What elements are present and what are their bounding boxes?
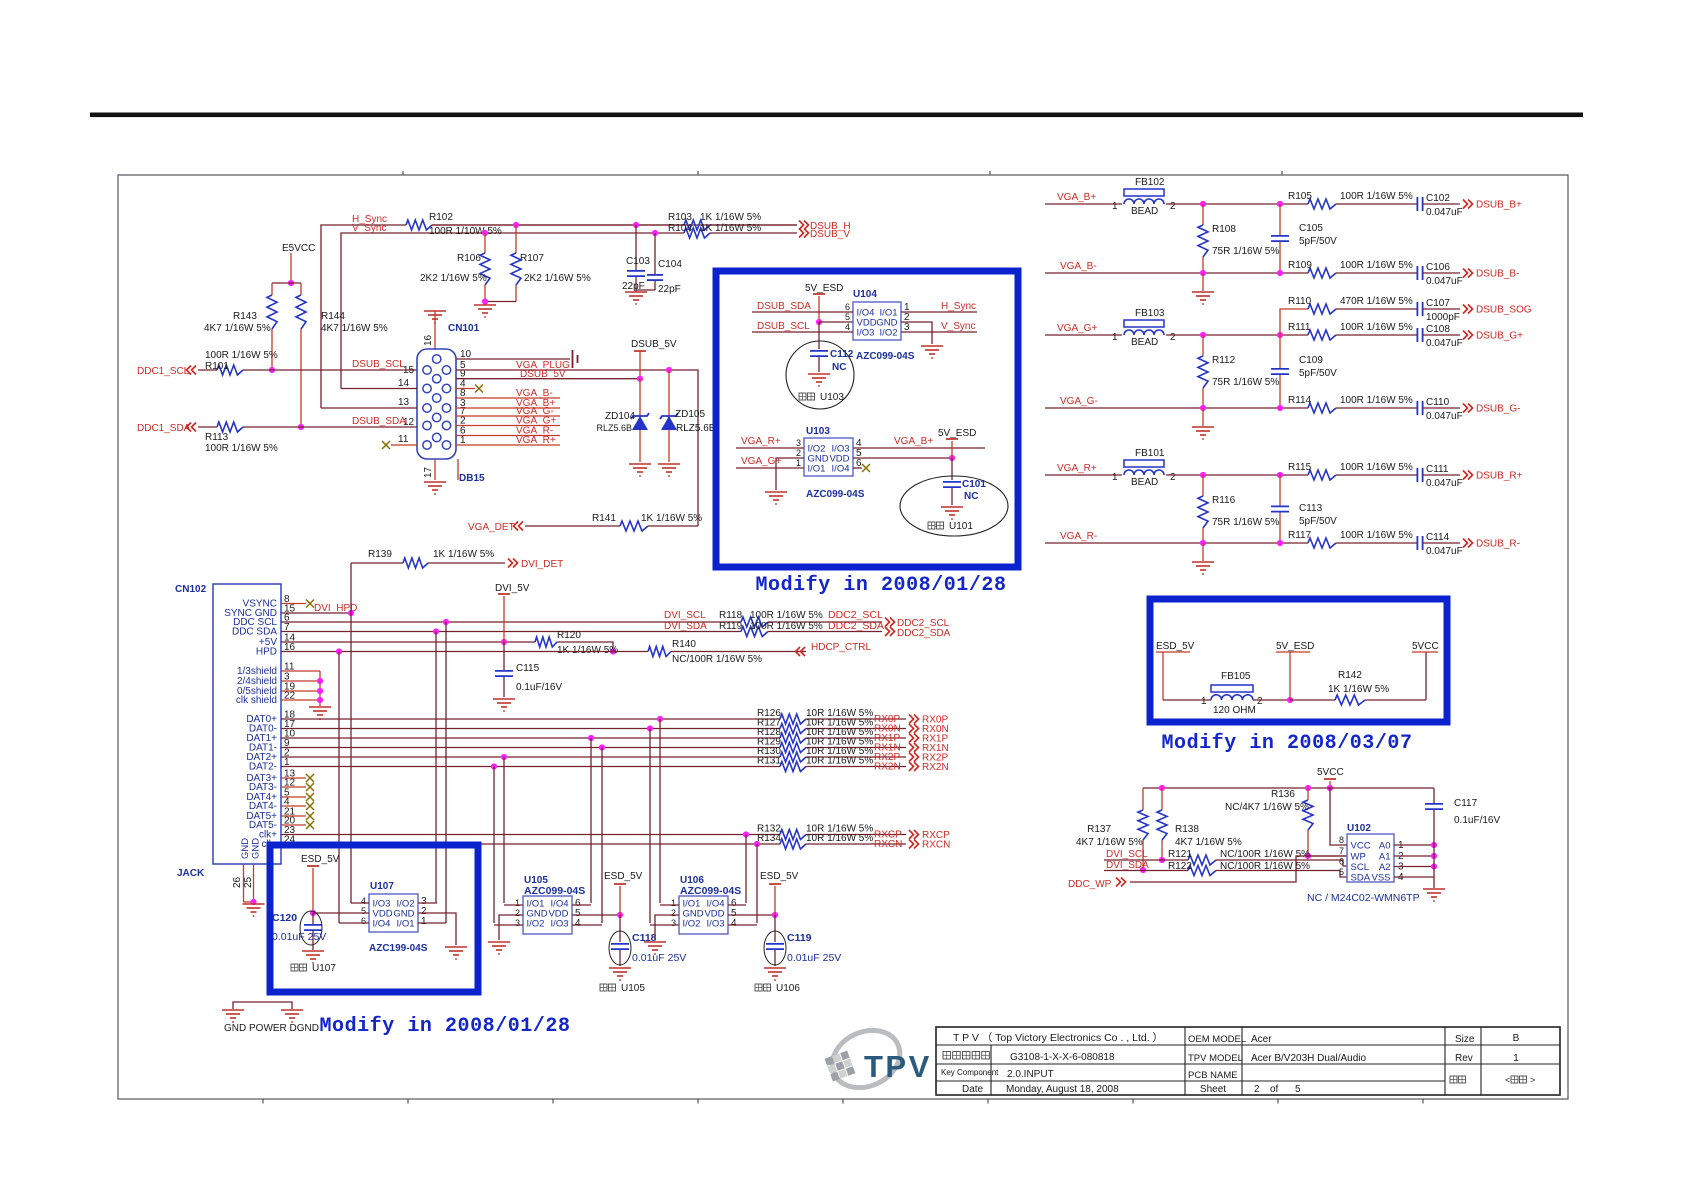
- svg-text:U101: U101: [949, 521, 973, 532]
- svg-text:100R 1/16W 5%: 100R 1/16W 5%: [750, 610, 823, 621]
- svg-text:VGA_G+: VGA_G+: [1057, 323, 1097, 334]
- svg-text:Sheet: Sheet: [1200, 1084, 1226, 1095]
- svg-text:1: 1: [421, 916, 427, 927]
- svg-text:1: 1: [1112, 332, 1118, 343]
- svg-text:DDC SDA: DDC SDA: [232, 627, 277, 638]
- svg-text:DDC2_SDA: DDC2_SDA: [828, 620, 884, 632]
- svg-text:4K7 1/16W 5%: 4K7 1/16W 5%: [204, 323, 271, 334]
- svg-text:1: 1: [1201, 696, 1207, 707]
- svg-text:>: >: [1530, 1075, 1535, 1085]
- svg-text:DVI_SCL: DVI_SCL: [664, 610, 706, 621]
- svg-text:C113: C113: [1299, 503, 1323, 514]
- svg-text:DVI_DET: DVI_DET: [521, 559, 563, 570]
- svg-text:5V_ESD: 5V_ESD: [938, 428, 976, 439]
- svg-text:Acer: Acer: [1251, 1034, 1272, 1045]
- svg-text:4: 4: [845, 322, 850, 332]
- svg-text:R137: R137: [1087, 824, 1111, 835]
- svg-text:1: 1: [1513, 1053, 1519, 1064]
- svg-text:NC/4K7 1/16W 5%: NC/4K7 1/16W 5%: [1225, 802, 1309, 813]
- svg-text:I/O2: I/O2: [527, 918, 545, 929]
- svg-text:R140: R140: [672, 639, 696, 650]
- svg-text:I/O4: I/O4: [373, 918, 391, 929]
- svg-text:1: 1: [1112, 472, 1118, 483]
- svg-text:DSUB_G-: DSUB_G-: [1476, 404, 1520, 415]
- svg-text:WP: WP: [1351, 851, 1366, 862]
- svg-text:75R 1/16W 5%: 75R 1/16W 5%: [1212, 517, 1279, 528]
- svg-text:NC: NC: [832, 362, 846, 373]
- svg-text:8: 8: [1339, 835, 1344, 845]
- svg-text:C105: C105: [1299, 223, 1323, 234]
- svg-text:R139: R139: [368, 549, 392, 560]
- svg-text:5V_ESD: 5V_ESD: [805, 283, 843, 294]
- svg-text:TPV MODEL: TPV MODEL: [1188, 1053, 1243, 1064]
- svg-text:R109: R109: [1288, 260, 1312, 271]
- svg-text:100R 1/16W 5%: 100R 1/16W 5%: [1340, 462, 1413, 473]
- svg-text:HPD: HPD: [256, 647, 277, 658]
- svg-text:6: 6: [1339, 857, 1344, 867]
- svg-text:100R 1/16W 5%: 100R 1/16W 5%: [205, 443, 278, 454]
- svg-text:VGA_B+: VGA_B+: [894, 436, 933, 447]
- svg-text:R121: R121: [1168, 849, 1192, 860]
- svg-text:AZC099-04S: AZC099-04S: [524, 885, 585, 897]
- svg-text:AZC099-04S: AZC099-04S: [680, 885, 741, 897]
- svg-text:ESD_5V: ESD_5V: [604, 871, 643, 882]
- svg-text:0.047uF: 0.047uF: [1426, 478, 1463, 489]
- svg-text:DSUB_SCL: DSUB_SCL: [757, 321, 810, 332]
- svg-text:I/O4: I/O4: [832, 463, 850, 474]
- svg-text:VGA_G-: VGA_G-: [1060, 396, 1098, 407]
- svg-text:DVI_SCL: DVI_SCL: [1106, 849, 1148, 860]
- svg-text:VGA_B+: VGA_B+: [1057, 192, 1096, 203]
- svg-text:T P V （ Top Victory Electron: T P V （ Top Victory Electronics Co . , L…: [953, 1032, 1163, 1044]
- svg-text:100R 1/10W 5%: 100R 1/10W 5%: [429, 226, 502, 237]
- svg-text:R115: R115: [1288, 462, 1312, 473]
- svg-text:2: 2: [796, 448, 801, 458]
- svg-text:Modify in 2008/01/28: Modify in 2008/01/28: [755, 574, 1006, 597]
- svg-text:VGA_R+: VGA_R+: [741, 436, 781, 447]
- svg-text:R105: R105: [1288, 191, 1312, 202]
- svg-text:75R 1/16W 5%: 75R 1/16W 5%: [1212, 246, 1279, 257]
- svg-text:R138: R138: [1175, 824, 1199, 835]
- svg-text:C108: C108: [1426, 324, 1450, 335]
- svg-text:4: 4: [731, 918, 737, 929]
- svg-text:VGA_R+: VGA_R+: [1057, 463, 1097, 474]
- svg-text:22pF: 22pF: [622, 281, 645, 292]
- svg-text:clk shield: clk shield: [236, 695, 277, 706]
- svg-text:C109: C109: [1299, 355, 1323, 366]
- svg-text:1K 1/16W 5%: 1K 1/16W 5%: [433, 549, 494, 560]
- svg-text:I/O2: I/O2: [880, 327, 898, 338]
- svg-text:GND POWER DGND: GND POWER DGND: [224, 1023, 319, 1034]
- svg-text:VCC: VCC: [1351, 840, 1371, 851]
- svg-text:<: <: [1505, 1075, 1510, 1085]
- svg-text:5V_ESD: 5V_ESD: [1276, 641, 1314, 652]
- svg-text:R114: R114: [1288, 395, 1312, 406]
- svg-text:CN101: CN101: [448, 323, 480, 334]
- svg-text:DSUB_5V: DSUB_5V: [631, 339, 677, 350]
- svg-text:C110: C110: [1426, 397, 1450, 408]
- svg-text:10R 1/16W 5%: 10R 1/16W 5%: [806, 833, 873, 844]
- svg-text:26: 26: [232, 876, 243, 888]
- svg-text:5: 5: [361, 906, 366, 916]
- svg-text:14: 14: [398, 378, 410, 389]
- svg-text:75R 1/16W 5%: 75R 1/16W 5%: [1212, 377, 1279, 388]
- svg-text:C115: C115: [516, 663, 540, 674]
- svg-text:A2: A2: [1379, 862, 1391, 873]
- svg-text:100R 1/16W 5%: 100R 1/16W 5%: [1340, 322, 1413, 333]
- svg-text:ESD_5V: ESD_5V: [760, 871, 799, 882]
- svg-text:16: 16: [423, 334, 434, 346]
- svg-text:2: 2: [1170, 332, 1176, 343]
- svg-text:Modify in 2008/01/28: Modify in 2008/01/28: [319, 1015, 570, 1038]
- svg-text:2: 2: [515, 908, 520, 918]
- svg-text:12: 12: [403, 417, 415, 428]
- svg-text:DVI_SDA: DVI_SDA: [664, 621, 707, 632]
- svg-text:1K 1/16W 5%: 1K 1/16W 5%: [700, 223, 761, 234]
- svg-text:VGA_DET: VGA_DET: [468, 522, 515, 533]
- svg-text:Size: Size: [1455, 1034, 1475, 1045]
- svg-text:SDA: SDA: [1351, 872, 1371, 883]
- svg-text:5VCC: 5VCC: [1317, 767, 1344, 778]
- svg-text:JACK: JACK: [177, 868, 205, 879]
- svg-text:RX2N: RX2N: [922, 762, 949, 773]
- svg-text:4K7 1/16W 5%: 4K7 1/16W 5%: [1076, 837, 1143, 848]
- svg-text:NC / M24C02-WMN6TP: NC / M24C02-WMN6TP: [1307, 892, 1420, 904]
- svg-text:DSUB_5V: DSUB_5V: [520, 369, 566, 380]
- svg-text:R107: R107: [520, 253, 544, 264]
- svg-text:R108: R108: [1212, 224, 1236, 235]
- svg-text:DAT2-: DAT2-: [249, 762, 277, 773]
- svg-text:SCL: SCL: [1351, 862, 1369, 873]
- svg-text:ZD104: ZD104: [605, 411, 635, 422]
- svg-text:4K7 1/16W 5%: 4K7 1/16W 5%: [1175, 837, 1242, 848]
- svg-text:4K7 1/16W 5%: 4K7 1/16W 5%: [321, 323, 388, 334]
- svg-text:15: 15: [403, 365, 415, 376]
- svg-text:R104: R104: [668, 223, 692, 234]
- svg-text:RXCN: RXCN: [922, 840, 950, 851]
- svg-text:1K 1/16W 5%: 1K 1/16W 5%: [641, 513, 702, 524]
- svg-text:FB101: FB101: [1135, 448, 1165, 459]
- svg-text:0.047uF: 0.047uF: [1426, 411, 1463, 422]
- svg-text:DB15: DB15: [459, 473, 485, 484]
- svg-text:DVI_SDA: DVI_SDA: [1106, 860, 1149, 871]
- svg-text:RLZ5.6B: RLZ5.6B: [676, 423, 716, 434]
- svg-text:1K 1/16W 5%: 1K 1/16W 5%: [700, 212, 761, 223]
- svg-text:R106: R106: [457, 253, 481, 264]
- svg-text:R120: R120: [557, 630, 581, 641]
- svg-text:2: 2: [1170, 472, 1176, 483]
- svg-text:I/O2: I/O2: [683, 918, 701, 929]
- svg-text:VGA_B-: VGA_B-: [1060, 261, 1097, 272]
- svg-text:25: 25: [243, 876, 254, 888]
- svg-text:DSUB_SCL: DSUB_SCL: [352, 359, 405, 370]
- svg-text:C106: C106: [1426, 262, 1450, 273]
- svg-text:DSUB_B+: DSUB_B+: [1476, 200, 1522, 211]
- svg-text:2: 2: [1170, 201, 1176, 212]
- svg-text:AZC199-04S: AZC199-04S: [369, 943, 428, 954]
- svg-text:of: of: [1270, 1084, 1279, 1095]
- svg-text:U102: U102: [1347, 823, 1371, 834]
- svg-text:6: 6: [845, 302, 850, 312]
- svg-text:DDC1_SCL: DDC1_SCL: [137, 366, 190, 377]
- svg-text:A0: A0: [1379, 840, 1391, 851]
- svg-text:1: 1: [671, 898, 676, 908]
- svg-text:Acer B/V203H Dual/Audio: Acer B/V203H Dual/Audio: [1251, 1053, 1367, 1064]
- svg-text:2.0.INPUT: 2.0.INPUT: [1007, 1069, 1054, 1080]
- svg-text:R101: R101: [205, 361, 229, 372]
- svg-text:1: 1: [515, 898, 520, 908]
- svg-text:R144: R144: [321, 311, 345, 322]
- svg-text:3: 3: [671, 918, 676, 928]
- svg-text:BEAD: BEAD: [1131, 337, 1158, 348]
- svg-text:U107: U107: [312, 963, 336, 974]
- svg-text:22pF: 22pF: [658, 284, 681, 295]
- svg-text:DSUB_SDA: DSUB_SDA: [352, 416, 406, 427]
- svg-text:E5VCC: E5VCC: [282, 243, 315, 254]
- svg-text:DSUB_SOG: DSUB_SOG: [1476, 305, 1532, 316]
- svg-text:R112: R112: [1212, 355, 1236, 366]
- svg-text:U103: U103: [806, 426, 830, 437]
- svg-text:5: 5: [845, 312, 850, 322]
- svg-text:U103: U103: [820, 392, 844, 403]
- svg-text:470R 1/16W 5%: 470R 1/16W 5%: [1340, 296, 1413, 307]
- svg-text:7: 7: [1339, 846, 1344, 856]
- svg-text:AZC099-04S: AZC099-04S: [806, 489, 865, 500]
- svg-text:Key Component: Key Component: [941, 1068, 999, 1077]
- svg-text:0.047uF: 0.047uF: [1426, 276, 1463, 287]
- svg-text:C112: C112: [830, 349, 854, 360]
- svg-text:DDC2_SDA: DDC2_SDA: [897, 628, 951, 639]
- svg-text:R131: R131: [757, 756, 781, 767]
- svg-text:100R 1/16W 5%: 100R 1/16W 5%: [1340, 260, 1413, 271]
- svg-text:RX2N: RX2N: [874, 762, 901, 773]
- svg-text:RXCN: RXCN: [874, 839, 902, 850]
- svg-text:DSUB_G+: DSUB_G+: [1476, 331, 1523, 342]
- svg-text:120 OHM: 120 OHM: [1213, 705, 1256, 716]
- svg-text:0.1uF/16V: 0.1uF/16V: [516, 682, 562, 693]
- svg-text:U105: U105: [621, 983, 645, 994]
- svg-text:2K2 1/16W 5%: 2K2 1/16W 5%: [524, 273, 591, 284]
- svg-text:DSUB_SDA: DSUB_SDA: [757, 301, 811, 312]
- svg-text:VGA_R-: VGA_R-: [1060, 531, 1097, 542]
- svg-text:NC: NC: [964, 491, 978, 502]
- svg-text:V_Sync: V_Sync: [941, 321, 975, 332]
- svg-text:1000pF: 1000pF: [1426, 312, 1460, 323]
- svg-text:R142: R142: [1338, 670, 1362, 681]
- svg-text:C101: C101: [962, 479, 986, 490]
- svg-text:DVI_5V: DVI_5V: [495, 583, 530, 594]
- svg-text:R116: R116: [1212, 495, 1236, 506]
- svg-text:DSUB_R-: DSUB_R-: [1476, 539, 1520, 550]
- svg-text:100R 1/16W 5%: 100R 1/16W 5%: [1340, 530, 1413, 541]
- svg-text:DDC1_SDA: DDC1_SDA: [137, 423, 191, 434]
- svg-text:V_Sync: V_Sync: [352, 223, 386, 234]
- svg-text:ESD_5V: ESD_5V: [301, 854, 340, 865]
- svg-text:NC/100R 1/16W 5%: NC/100R 1/16W 5%: [672, 654, 762, 665]
- svg-text:C117: C117: [1454, 798, 1478, 809]
- svg-text:11: 11: [398, 434, 409, 445]
- svg-text:1K 1/16W 5%: 1K 1/16W 5%: [1328, 684, 1389, 695]
- svg-text:0.01uF 25V: 0.01uF 25V: [787, 952, 841, 964]
- svg-text:ESD_5V: ESD_5V: [1156, 641, 1195, 652]
- svg-text:BEAD: BEAD: [1131, 206, 1158, 217]
- svg-text:1K 1/16W 5%: 1K 1/16W 5%: [557, 645, 618, 656]
- svg-text:C104: C104: [658, 259, 682, 270]
- svg-text:R113: R113: [205, 432, 229, 443]
- svg-text:U104: U104: [853, 289, 877, 300]
- svg-text:5: 5: [1295, 1084, 1301, 1095]
- svg-text:100R 1/16W 5%: 100R 1/16W 5%: [1340, 395, 1413, 406]
- svg-text:H_Sync: H_Sync: [941, 301, 976, 312]
- svg-text:6: 6: [361, 916, 366, 926]
- svg-text:CN102: CN102: [175, 584, 207, 595]
- svg-text:C107: C107: [1426, 298, 1450, 309]
- svg-text:B: B: [1513, 1033, 1520, 1044]
- svg-text:OEM MODEL: OEM MODEL: [1188, 1034, 1246, 1045]
- svg-text:0.01uF 25V: 0.01uF 25V: [632, 952, 686, 964]
- svg-text:Date: Date: [962, 1084, 984, 1095]
- svg-text:3: 3: [515, 918, 520, 928]
- svg-text:10R 1/16W 5%: 10R 1/16W 5%: [806, 756, 873, 767]
- svg-text:1: 1: [1112, 201, 1118, 212]
- svg-text:0.047uF: 0.047uF: [1426, 546, 1463, 557]
- svg-text:R143: R143: [233, 311, 257, 322]
- svg-text:FB105: FB105: [1221, 671, 1251, 682]
- svg-text:100R 1/16W 5%: 100R 1/16W 5%: [750, 621, 823, 632]
- svg-text:U106: U106: [776, 983, 800, 994]
- svg-text:17: 17: [423, 466, 434, 478]
- svg-text:R110: R110: [1288, 296, 1312, 307]
- svg-text:R136: R136: [1271, 789, 1295, 800]
- svg-text:R122: R122: [1168, 861, 1192, 872]
- svg-text:U107: U107: [370, 881, 394, 892]
- svg-text:100R 1/16W 5%: 100R 1/16W 5%: [205, 350, 278, 361]
- svg-text:PCB NAME: PCB NAME: [1188, 1070, 1238, 1081]
- svg-text:2: 2: [1254, 1084, 1260, 1095]
- svg-text:0.01uF 25V: 0.01uF 25V: [272, 931, 326, 943]
- svg-text:R102: R102: [429, 212, 453, 223]
- svg-text:A1: A1: [1379, 851, 1391, 862]
- svg-text:VGA_R+: VGA_R+: [516, 435, 556, 446]
- svg-text:GND: GND: [240, 838, 251, 859]
- svg-text:G3108-1-X-X-6-080818: G3108-1-X-X-6-080818: [1010, 1052, 1115, 1063]
- svg-text:I/O3: I/O3: [707, 918, 725, 929]
- svg-text:0.047uF: 0.047uF: [1426, 207, 1463, 218]
- svg-text:I/O1: I/O1: [808, 463, 826, 474]
- svg-text:3: 3: [796, 438, 801, 448]
- svg-text:100R 1/16W 5%: 100R 1/16W 5%: [1340, 191, 1413, 202]
- svg-text:2K2 1/16W 5%: 2K2 1/16W 5%: [420, 273, 487, 284]
- svg-text:13: 13: [398, 397, 410, 408]
- svg-text:C111: C111: [1426, 464, 1449, 475]
- svg-text:R119: R119: [719, 621, 743, 632]
- svg-text:I/O3: I/O3: [857, 327, 875, 338]
- svg-text:DSUB_B-: DSUB_B-: [1476, 269, 1519, 280]
- svg-text:AZC099-04S: AZC099-04S: [856, 351, 915, 362]
- svg-text:4: 4: [361, 896, 366, 906]
- svg-text:FB103: FB103: [1135, 308, 1165, 319]
- svg-text:HDCP_CTRL: HDCP_CTRL: [811, 642, 871, 653]
- svg-text:5pF/50V: 5pF/50V: [1299, 236, 1337, 247]
- svg-text:R111: R111: [1288, 322, 1311, 333]
- svg-text:R117: R117: [1288, 530, 1312, 541]
- svg-text:C103: C103: [626, 256, 650, 267]
- svg-text:5: 5: [1339, 867, 1344, 877]
- svg-text:VSS: VSS: [1371, 872, 1390, 883]
- svg-text:GND: GND: [251, 838, 262, 859]
- svg-text:I/O3: I/O3: [551, 918, 569, 929]
- svg-text:1: 1: [796, 458, 801, 468]
- svg-text:C120: C120: [272, 912, 297, 924]
- svg-text:R103: R103: [668, 212, 692, 223]
- svg-text:C114: C114: [1426, 532, 1450, 543]
- svg-text:R134: R134: [757, 833, 781, 844]
- svg-text:0.047uF: 0.047uF: [1426, 338, 1463, 349]
- svg-text:BEAD: BEAD: [1131, 477, 1158, 488]
- svg-text:Monday, August 18, 2008: Monday, August 18, 2008: [1006, 1084, 1119, 1095]
- svg-text:4: 4: [575, 918, 581, 929]
- svg-text:2: 2: [671, 908, 676, 918]
- svg-text:DSUB_R+: DSUB_R+: [1476, 471, 1523, 482]
- svg-text:C119: C119: [787, 932, 812, 944]
- svg-text:Modify in 2008/03/07: Modify in 2008/03/07: [1161, 732, 1412, 755]
- svg-text:DSUB_V: DSUB_V: [810, 229, 850, 240]
- svg-text:DDC_WP: DDC_WP: [1068, 879, 1112, 890]
- svg-text:TPV: TPV: [864, 1049, 932, 1084]
- svg-text:5pF/50V: 5pF/50V: [1299, 516, 1337, 527]
- svg-text:R141: R141: [592, 513, 616, 524]
- svg-text:FB102: FB102: [1135, 177, 1165, 188]
- svg-text:5VCC: 5VCC: [1412, 641, 1439, 652]
- svg-text:RLZ5.6B: RLZ5.6B: [596, 423, 632, 433]
- svg-text:Rev: Rev: [1455, 1053, 1473, 1064]
- svg-text:5pF/50V: 5pF/50V: [1299, 368, 1337, 379]
- svg-text:C102: C102: [1426, 193, 1450, 204]
- svg-text:0.1uF/16V: 0.1uF/16V: [1454, 815, 1500, 826]
- svg-text:2: 2: [1257, 696, 1263, 707]
- svg-text:ZD105: ZD105: [675, 409, 705, 420]
- svg-text:R118: R118: [719, 610, 743, 621]
- svg-text:I/O1: I/O1: [397, 918, 415, 929]
